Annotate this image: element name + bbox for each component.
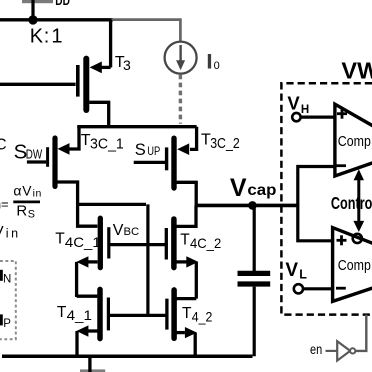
svg-text:1: 1 bbox=[51, 26, 62, 48]
svg-text:S: S bbox=[28, 209, 35, 221]
equation Iin = aVin/Rs (cropped) bbox=[0, 182, 42, 220]
svg-text:VW: VW bbox=[341, 58, 372, 84]
label VBC bbox=[113, 222, 140, 239]
svg-text:V: V bbox=[285, 260, 298, 281]
wire dashed gray below I0 bbox=[179, 75, 182, 124]
svg-text:4_2: 4_2 bbox=[192, 308, 213, 324]
svg-text:Comp.: Comp. bbox=[338, 258, 372, 274]
svg-text:n=: n= bbox=[0, 197, 9, 212]
svg-text:α: α bbox=[13, 182, 21, 198]
svg-text:DW: DW bbox=[26, 147, 42, 161]
svg-text:en: en bbox=[310, 341, 322, 357]
enable buffer (gray) bbox=[326, 315, 367, 361]
svg-text:T: T bbox=[180, 232, 190, 249]
svg-text:V: V bbox=[287, 93, 300, 114]
svg-text:4C_1: 4C_1 bbox=[65, 234, 101, 250]
svg-text:3C_2: 3C_2 bbox=[210, 135, 240, 152]
svg-text:T: T bbox=[55, 230, 65, 247]
terminal VH bbox=[287, 93, 333, 122]
transistor T4C_1 bbox=[55, 204, 109, 297]
wire ground rail bbox=[2, 355, 253, 359]
svg-text:in: in bbox=[33, 187, 42, 199]
svg-text:Control: Control bbox=[331, 193, 372, 213]
svg-text:S: S bbox=[135, 141, 146, 159]
wire bottom gate line bbox=[108, 314, 166, 317]
current source I0 bbox=[165, 42, 197, 74]
svg-text:BC: BC bbox=[124, 226, 140, 238]
svg-text:P: P bbox=[3, 318, 11, 330]
svg-text:T: T bbox=[57, 304, 67, 321]
svg-text:R: R bbox=[16, 203, 27, 220]
svg-text:3: 3 bbox=[123, 57, 131, 73]
op-amp comparator 2 (bottom) bbox=[333, 228, 372, 302]
transistor T3C_1 with switch input SDW bbox=[27, 127, 124, 205]
svg-text:K: K bbox=[30, 26, 44, 48]
label en_P (cropped) bbox=[0, 314, 11, 330]
label Vin (cropped) bbox=[0, 223, 21, 241]
wire Vcap to comparator inputs bbox=[298, 167, 334, 241]
svg-text:UP: UP bbox=[147, 144, 160, 158]
transistor T3C_2 with switch input SUP bbox=[134, 127, 240, 206]
label SDW bbox=[14, 140, 43, 163]
transistor T4_2 bbox=[167, 290, 213, 357]
svg-text:N: N bbox=[3, 274, 11, 286]
svg-text:V: V bbox=[22, 183, 32, 198]
terminal VL bbox=[285, 260, 332, 294]
dashed window comparator box bbox=[281, 83, 372, 314]
svg-text:in: in bbox=[6, 227, 21, 241]
wire Vcap rail bbox=[196, 204, 298, 208]
node Vcap junction dot bbox=[248, 201, 257, 210]
svg-text::: : bbox=[44, 26, 50, 48]
ground symbol bbox=[80, 356, 105, 372]
label Vcap bbox=[230, 174, 277, 202]
svg-text:Comp.: Comp. bbox=[338, 134, 372, 150]
node VDD junction dot bbox=[28, 15, 37, 24]
wire VBC gate line bbox=[109, 243, 167, 246]
VDD supply symbol (cropped battery bar) bbox=[22, 0, 70, 20]
op-amp comparator 1 (top) bbox=[335, 104, 372, 176]
label I0 bbox=[208, 54, 220, 72]
svg-text:3C_1: 3C_1 bbox=[90, 135, 124, 152]
svg-text:4_1: 4_1 bbox=[67, 307, 93, 323]
control arrows to comparators bbox=[353, 169, 365, 243]
capacitor C bbox=[238, 205, 271, 356]
transistor T4_1 bbox=[57, 289, 109, 356]
label en_N (cropped) bbox=[0, 270, 11, 286]
svg-text:cap: cap bbox=[247, 182, 276, 199]
svg-text:V: V bbox=[230, 174, 247, 202]
wire gray to current source bbox=[112, 20, 181, 42]
svg-text:V: V bbox=[113, 222, 124, 239]
svg-text:DD: DD bbox=[55, 0, 70, 8]
svg-text:H: H bbox=[301, 104, 309, 116]
transistor T3 bbox=[0, 20, 131, 128]
wire VBC vertical drop bbox=[146, 204, 149, 315]
svg-text:V: V bbox=[0, 223, 4, 240]
svg-text:0: 0 bbox=[214, 60, 220, 72]
svg-text:4C_2: 4C_2 bbox=[190, 235, 221, 251]
svg-text:C: C bbox=[0, 137, 7, 154]
svg-text:L: L bbox=[299, 268, 307, 282]
wire top rail bbox=[0, 18, 113, 21]
label SUP bbox=[135, 141, 161, 159]
wire left mid rail (T3C_1 source to VBC tap) bbox=[78, 203, 146, 206]
transistor T4C_2 bbox=[166, 205, 221, 298]
dashed box enable signals (cropped, gray) bbox=[0, 261, 16, 339]
svg-text:T: T bbox=[182, 305, 192, 322]
wire rail under T3 bbox=[77, 125, 196, 128]
